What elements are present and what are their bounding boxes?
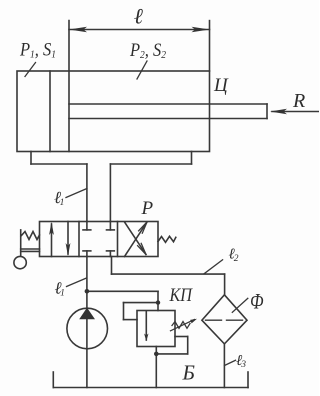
- svg-text:ℓ1: ℓ1: [54, 188, 64, 208]
- svg-text:P2, S2: P2, S2: [129, 40, 166, 61]
- svg-text:Ц: Ц: [213, 75, 229, 96]
- svg-text:P: P: [141, 198, 154, 219]
- svg-text:P1, S1: P1, S1: [19, 40, 56, 61]
- svg-text:Ф: Ф: [250, 289, 264, 314]
- svg-text:Б: Б: [182, 361, 195, 385]
- svg-text:ℓ2: ℓ2: [229, 247, 239, 265]
- svg-text:КП: КП: [169, 285, 193, 306]
- svg-text:R: R: [292, 90, 305, 112]
- svg-text:ℓ: ℓ: [134, 4, 144, 29]
- svg-text:ℓ1: ℓ1: [55, 279, 65, 299]
- svg-text:ℓ3: ℓ3: [236, 353, 246, 370]
